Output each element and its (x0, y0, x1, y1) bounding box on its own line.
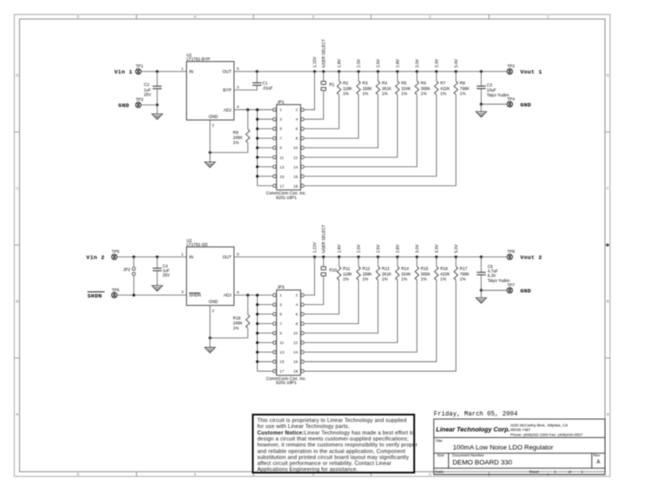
wire OUT net 2 (234, 256, 507, 258)
svg-text:1%: 1% (362, 91, 368, 96)
svg-text:substitution and printed circu: substitution and printed circuit board l… (257, 455, 409, 461)
svg-text:B: B (16, 299, 19, 304)
wire 1.22V select 1 (304, 72, 314, 110)
svg-text:R17: R17 (460, 266, 468, 271)
wire Vin1 to IN pin (141, 71, 186, 73)
svg-text:OUT: OUT (223, 69, 232, 74)
svg-text:1%: 1% (460, 91, 466, 96)
svg-text:Customer Notice:Linear Technol: Customer Notice:Linear Technology has ma… (257, 430, 414, 436)
svg-text:1.22V: 1.22V (312, 242, 317, 253)
op-amp regulator U1 LT1761-BYP (187, 62, 235, 121)
resistor R9 (247, 110, 249, 130)
wire to output ground 2 (480, 290, 482, 297)
capacitor C4 (156, 257, 158, 268)
svg-text:3.3V: 3.3V (434, 244, 439, 253)
op-amp regulator U2 LT1761-SD (187, 247, 235, 306)
ground output 1 (476, 112, 486, 117)
svg-text:100mA Low Noise LDO Regulator: 100mA Low Noise LDO Regulator (453, 445, 554, 452)
test point TP7 (507, 288, 512, 293)
svg-text:BYP: BYP (223, 88, 232, 93)
svg-text:Sheet: Sheet (529, 470, 540, 474)
ground input cap (152, 114, 162, 119)
ground U1 (205, 162, 215, 167)
svg-text:1%: 1% (382, 91, 388, 96)
svg-text:GND: GND (520, 101, 531, 108)
svg-text:D: D (606, 73, 609, 78)
ground U2 (205, 348, 215, 353)
svg-text:Vin 2: Vin 2 (86, 254, 105, 261)
svg-text:GND: GND (209, 114, 218, 119)
svg-text:6201-18P1: 6201-18P1 (276, 380, 297, 385)
svg-text:2.5V: 2.5V (375, 59, 380, 68)
resistor R1 user select pads (323, 72, 325, 82)
svg-text:1.8V: 1.8V (336, 59, 341, 68)
resistor R6 365K (304, 72, 417, 167)
test point TP6 (112, 292, 117, 297)
svg-text:R6: R6 (421, 80, 427, 85)
svg-text:USER SELECT: USER SELECT (321, 39, 326, 68)
svg-text:14: 14 (293, 164, 298, 169)
svg-text:Title: Title (435, 439, 442, 443)
svg-text:R2: R2 (343, 80, 349, 85)
svg-text:1.8V: 1.8V (336, 244, 341, 253)
svg-text:1%: 1% (401, 277, 407, 282)
wire adjust bus 1 (257, 110, 273, 186)
svg-text:17: 17 (280, 369, 285, 374)
svg-text:12: 12 (293, 340, 298, 345)
resistor R18 (247, 295, 249, 315)
svg-text:TP1: TP1 (136, 64, 144, 69)
svg-text:and reliable operation in the: and reliable operation in the actual app… (257, 449, 406, 455)
svg-text:TP5: TP5 (112, 249, 120, 254)
svg-text:DEMO BOARD 330: DEMO BOARD 330 (453, 460, 513, 467)
svg-text:TP3: TP3 (136, 97, 144, 102)
wire to output ground 1 (480, 104, 482, 111)
svg-text:1%: 1% (421, 91, 427, 96)
svg-text:6201-18P1: 6201-18P1 (276, 195, 297, 200)
capacitor C5 (480, 257, 482, 272)
wire output gnd row 1 (481, 103, 507, 105)
svg-text:R8: R8 (460, 80, 466, 85)
svg-text:R10: R10 (329, 267, 337, 272)
svg-text:GND: GND (209, 299, 218, 304)
svg-text:R7: R7 (440, 80, 446, 85)
svg-text:Rev: Rev (593, 454, 600, 458)
svg-text:JP3: JP3 (277, 285, 285, 290)
wire adjust bus 2 (257, 295, 273, 371)
svg-text:1630 McCarthy Blvd., Milpitas,: 1630 McCarthy Blvd., Milpitas, CA (510, 423, 568, 427)
svg-text:95035-7487: 95035-7487 (510, 428, 530, 432)
svg-text:Vin 1: Vin 1 (114, 69, 133, 76)
svg-text:1%: 1% (421, 277, 427, 282)
wire ADJ net 2 (234, 294, 257, 296)
svg-text:1%: 1% (362, 277, 368, 282)
wire OUT net 1 (234, 71, 507, 73)
svg-text:15: 15 (280, 359, 285, 364)
wire Vin2 to IN pin (117, 256, 186, 258)
svg-text:13: 13 (280, 350, 285, 355)
svg-text:R11: R11 (343, 266, 351, 271)
svg-text:R4: R4 (382, 80, 388, 85)
resistor R12 158K (304, 257, 358, 324)
svg-text:R1: R1 (329, 82, 335, 87)
svg-text:1: 1 (581, 470, 583, 474)
svg-text:2.0V: 2.0V (356, 244, 361, 253)
svg-text:SHDN: SHDN (189, 293, 201, 298)
svg-text:18: 18 (293, 369, 298, 374)
svg-text:GND: GND (118, 102, 129, 109)
test point TP8 (507, 254, 512, 259)
svg-text:16: 16 (293, 359, 298, 364)
svg-text:R13: R13 (382, 266, 390, 271)
wire 1.22V select 2 (304, 257, 314, 295)
svg-text:Friday, March 05, 2004: Friday, March 05, 2004 (434, 411, 518, 418)
svg-text:for use with Linear Technology: for use with Linear Technology parts. (257, 424, 349, 430)
svg-text:GND: GND (520, 287, 531, 294)
svg-text:18: 18 (293, 183, 298, 188)
svg-text:JP1: JP1 (277, 99, 285, 104)
test point TP3 (136, 102, 141, 107)
svg-text:Linear Technology Corp.: Linear Technology Corp. (436, 427, 510, 434)
svg-text:R12: R12 (362, 266, 370, 271)
svg-text:10: 10 (293, 331, 298, 336)
svg-text:1%: 1% (343, 277, 349, 282)
svg-text:R14: R14 (401, 266, 409, 271)
test point TP2 (507, 69, 512, 74)
svg-text:1%: 1% (460, 277, 466, 282)
svg-text:design a circuit that meets cu: design a circuit that meets customer-sup… (257, 436, 408, 442)
svg-text:25V: 25V (163, 273, 171, 278)
svg-text:1: 1 (554, 470, 556, 474)
svg-text:This circuit is proprietary to: This circuit is proprietary to Linear Te… (257, 418, 407, 424)
svg-text:25V: 25V (144, 92, 152, 97)
svg-text:10: 10 (293, 145, 298, 150)
resistor R16 422K (304, 257, 436, 362)
svg-text:2.8V: 2.8V (395, 59, 400, 68)
title block frame (434, 419, 605, 474)
svg-text:OUT: OUT (223, 255, 232, 260)
svg-text:2.0V: 2.0V (356, 59, 361, 68)
svg-text:LT1761-BYP: LT1761-BYP (187, 57, 211, 62)
disclaimer notice box (253, 415, 414, 473)
svg-text:5.0V: 5.0V (453, 59, 458, 68)
svg-text:2.5V: 2.5V (375, 244, 380, 253)
wire SHDN net (117, 294, 186, 296)
resistor R11 118K (304, 257, 339, 314)
svg-text:R16: R16 (440, 266, 448, 271)
svg-text:1%: 1% (401, 91, 407, 96)
svg-text:12: 12 (293, 155, 298, 160)
svg-text:Phone: (408)432-1900 Fax: (408: Phone: (408)432-1900 Fax: (408)434-0507 (510, 433, 582, 437)
border zone marker right (606, 244, 609, 247)
svg-text:1%: 1% (233, 326, 239, 331)
svg-text:2.8V: 2.8V (395, 244, 400, 253)
test point TP1 (136, 69, 141, 74)
resistor R17 768K (304, 257, 456, 371)
wire C2 to ground (156, 105, 158, 114)
resistor R10 user select pads (323, 257, 325, 267)
svg-text:R3: R3 (362, 80, 368, 85)
svg-text:A: A (606, 412, 609, 417)
svg-text:14: 14 (293, 350, 298, 355)
svg-text:Document Number: Document Number (452, 454, 485, 458)
svg-text:TP2: TP2 (507, 64, 515, 69)
svg-text:16: 16 (293, 174, 298, 179)
svg-text:1%: 1% (382, 277, 388, 282)
wire U1 GND pin stub (209, 120, 211, 162)
svg-text:TP7: TP7 (507, 283, 515, 288)
resistor R15 365K (304, 257, 417, 352)
capacitor C1 (256, 72, 258, 83)
svg-text:Vout 2: Vout 2 (520, 254, 542, 261)
svg-text:R15: R15 (421, 266, 429, 271)
svg-text:1.22V: 1.22V (312, 57, 317, 68)
resistor R14 324K (304, 257, 397, 343)
svg-text:C2: C2 (144, 82, 150, 87)
connector JP1 CommConn 6201-18P1 (277, 105, 301, 190)
svg-text:R5: R5 (401, 80, 407, 85)
capacitor C3 (480, 72, 482, 87)
svg-text:TP6: TP6 (112, 287, 120, 292)
svg-text:1%: 1% (440, 277, 446, 282)
disclaimer text (257, 418, 417, 473)
svg-text:LT1761-SD: LT1761-SD (187, 242, 208, 247)
capacitor C2 (156, 72, 158, 87)
svg-text:C: C (606, 186, 609, 191)
svg-text:15: 15 (280, 174, 285, 179)
svg-text:3.0V: 3.0V (414, 244, 419, 253)
svg-text:1%: 1% (233, 140, 239, 145)
svg-text:3.3V: 3.3V (434, 59, 439, 68)
test point TP4 (507, 102, 512, 107)
svg-text:however, it remains the custom: however, it remains the customers respon… (257, 443, 417, 449)
resistor R2 118K (304, 72, 339, 129)
resistor R13 261K (304, 257, 378, 333)
wire TP3 to C2 (141, 104, 157, 106)
svg-text:3.0V: 3.0V (414, 59, 419, 68)
svg-text:JP2: JP2 (123, 267, 131, 272)
svg-text:B: B (606, 299, 609, 304)
svg-text:TP8: TP8 (507, 249, 515, 254)
svg-text:IN: IN (189, 69, 193, 74)
svg-text:ADJ: ADJ (223, 107, 231, 112)
svg-text:A: A (597, 460, 601, 466)
resistor R3 158K (304, 72, 358, 139)
svg-text:TP4: TP4 (507, 96, 515, 101)
svg-text:D: D (16, 73, 19, 78)
resistor R5 324K (304, 72, 397, 158)
svg-text:Vout 1: Vout 1 (520, 69, 542, 76)
svg-text:SHDN: SHDN (87, 292, 102, 299)
resistor R4 261K (304, 72, 378, 148)
svg-text:17: 17 (280, 183, 285, 188)
connector JP3 CommConn 6201-18P1 (277, 290, 301, 375)
svg-text:C: C (16, 186, 19, 191)
ground output 2 (476, 298, 486, 303)
svg-text:1%: 1% (440, 91, 446, 96)
svg-text:ADJ: ADJ (223, 293, 231, 298)
resistor R8 768K (304, 72, 456, 186)
wire U2 GND pin stub (209, 305, 211, 347)
svg-text:13: 13 (280, 164, 285, 169)
svg-text:1%: 1% (343, 91, 349, 96)
svg-text:A: A (16, 412, 19, 417)
svg-text:Applications Engineering for a: Applications Engineering for assistance. (257, 467, 358, 473)
svg-text:.01uF: .01uF (262, 86, 273, 91)
svg-text:Date:: Date: (435, 470, 444, 474)
wire output gnd row 2 (481, 289, 507, 291)
svg-text:5.0V: 5.0V (453, 244, 458, 253)
ground input cap 2 (152, 286, 162, 291)
wire ADJ net 1 (234, 109, 257, 111)
svg-text:Size: Size (437, 454, 444, 458)
test point TP5 (112, 254, 117, 259)
resistor R7 422K (304, 72, 436, 177)
svg-text:affect circuit performance or: affect circuit performance or reliabilit… (257, 461, 391, 467)
svg-text:USER SELECT: USER SELECT (321, 224, 326, 253)
svg-text:IN: IN (189, 255, 193, 260)
